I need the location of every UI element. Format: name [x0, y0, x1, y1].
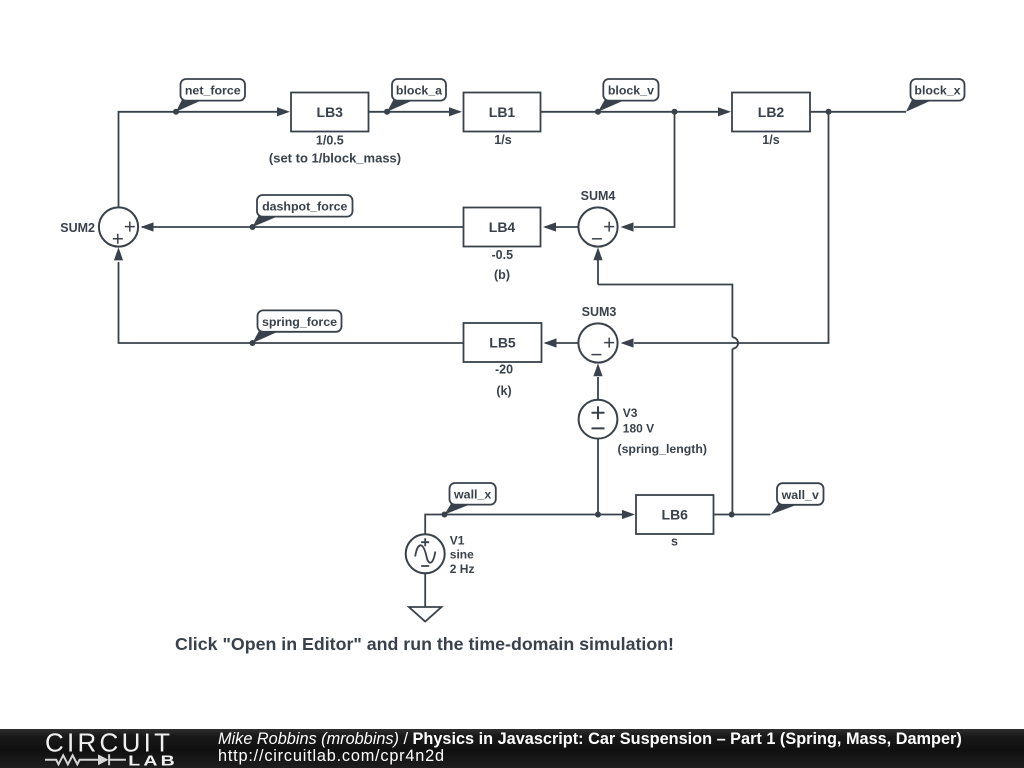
svg-text:2 Hz: 2 Hz: [450, 562, 475, 576]
svg-text:(set to 1/block_mass): (set to 1/block_mass): [269, 151, 401, 166]
svg-text:1/s: 1/s: [762, 133, 779, 147]
svg-text:Click "Open in Editor" and run: Click "Open in Editor" and run the time-…: [175, 634, 674, 654]
svg-text:(b): (b): [494, 268, 510, 282]
svg-text:LB4: LB4: [489, 219, 516, 235]
svg-text:180 V: 180 V: [623, 421, 654, 435]
svg-text:LB1: LB1: [489, 104, 516, 120]
svg-text:SUM3: SUM3: [582, 305, 617, 319]
svg-text:-0.5: -0.5: [492, 248, 514, 262]
svg-text:LB2: LB2: [758, 104, 785, 120]
svg-text:LB6: LB6: [662, 507, 689, 523]
svg-text:block_a: block_a: [396, 84, 442, 98]
svg-text:sine: sine: [450, 548, 474, 562]
svg-text:block_x: block_x: [914, 84, 960, 98]
svg-text:V1: V1: [450, 534, 465, 548]
svg-text:-20: -20: [495, 362, 513, 376]
svg-text:LAB: LAB: [128, 752, 178, 768]
svg-text:LB5: LB5: [489, 335, 516, 351]
svg-text:wall_v: wall_v: [781, 488, 819, 502]
svg-text:block_v: block_v: [608, 84, 654, 98]
svg-text:net_force: net_force: [185, 84, 241, 98]
svg-text:SUM2: SUM2: [60, 221, 95, 235]
svg-text:dashpot_force: dashpot_force: [262, 200, 347, 214]
svg-text:s: s: [671, 534, 678, 548]
svg-text:1/s: 1/s: [494, 133, 511, 147]
svg-text:wall_x: wall_x: [453, 488, 491, 502]
svg-text:spring_force: spring_force: [262, 315, 337, 329]
svg-text:V3: V3: [623, 406, 638, 420]
svg-text:LB3: LB3: [317, 104, 344, 120]
svg-text:(k): (k): [496, 384, 511, 398]
svg-text:SUM4: SUM4: [581, 189, 616, 203]
svg-text:1/0.5: 1/0.5: [316, 133, 344, 147]
svg-text:(spring_length): (spring_length): [618, 442, 708, 456]
